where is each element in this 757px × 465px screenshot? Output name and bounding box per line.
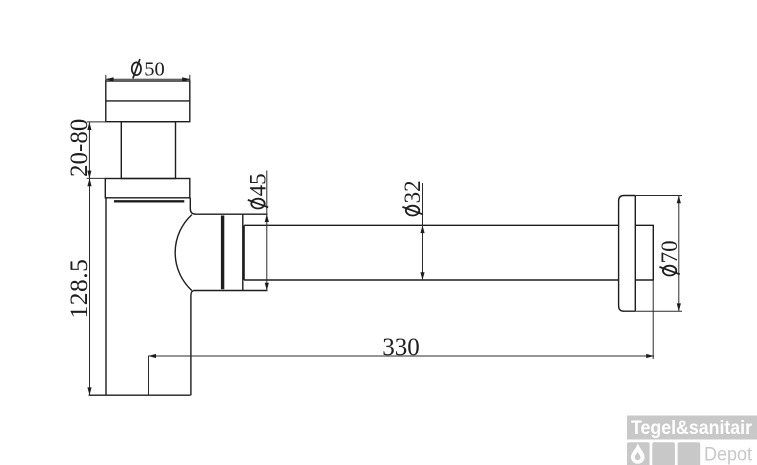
watermark square 2 bbox=[652, 442, 675, 465]
dim 20-80 ext top bbox=[87, 121, 106, 123]
arrow Ø70 top bbox=[677, 196, 681, 204]
arrow 20-80 top bbox=[87, 122, 91, 130]
gasket line bbox=[114, 200, 184, 202]
arrow 128.5 top bbox=[87, 178, 91, 186]
pipe bottom line bbox=[244, 279, 618, 281]
svg-text:20-80: 20-80 bbox=[66, 119, 93, 177]
watermark square 1 bbox=[627, 442, 650, 465]
dim 330 line bbox=[148, 355, 654, 357]
pipe top line bbox=[244, 224, 618, 226]
svg-text:Depot: Depot bbox=[704, 445, 753, 465]
top flange mid line bbox=[106, 100, 190, 102]
arrow 330 left bbox=[148, 354, 156, 358]
watermark band bbox=[627, 416, 757, 440]
arrow Ø45 top bbox=[265, 214, 269, 222]
svg-text:32: 32 bbox=[400, 180, 425, 203]
stem pipe bbox=[121, 122, 175, 179]
label Ø32 bbox=[400, 180, 425, 215]
second flange bbox=[105, 179, 190, 198]
dome arc bbox=[175, 215, 192, 291]
dim Ø50 ext left bbox=[105, 75, 107, 81]
arrow 330 right bbox=[646, 354, 654, 358]
svg-text:Tegel&sanitair: Tegel&sanitair bbox=[631, 418, 753, 439]
arrow Ø50 right bbox=[182, 77, 190, 81]
arrow Ø32 bottom bbox=[420, 272, 424, 280]
dim 20-80 line bbox=[88, 122, 90, 178]
arrow Ø70 bottom bbox=[677, 303, 681, 311]
top flange outline bbox=[106, 81, 190, 122]
body left edge bbox=[105, 198, 107, 395]
wall flange outline bbox=[619, 196, 636, 312]
arrow Ø50 left bbox=[106, 77, 114, 81]
nut section top line bbox=[196, 213, 268, 215]
dim 330 ext left bbox=[148, 356, 150, 395]
watermark drop icon bbox=[631, 444, 645, 464]
watermark square 3 bbox=[678, 442, 701, 465]
svg-text:45: 45 bbox=[245, 173, 270, 196]
dim Ø70 ext top bbox=[635, 195, 682, 197]
label Ø70 bbox=[657, 240, 682, 275]
dim Ø50 ext right bbox=[189, 75, 191, 81]
label Ø50 bbox=[132, 58, 165, 80]
dim Ø45 line bbox=[266, 171, 268, 291]
dim Ø32 line bbox=[422, 183, 424, 280]
dim 128.5 line bbox=[89, 178, 91, 395]
svg-text:330: 330 bbox=[382, 334, 420, 361]
arrow Ø45 bottom bbox=[265, 283, 269, 291]
svg-text:50: 50 bbox=[144, 58, 165, 80]
label Ø45 bbox=[245, 173, 270, 208]
pipe left end bbox=[243, 225, 245, 280]
nut thick face line bbox=[221, 216, 224, 290]
arrow Ø32 top bbox=[420, 225, 424, 233]
dim Ø70 ext bottom bbox=[635, 310, 682, 312]
dim 20-80 ext bottom bbox=[87, 177, 106, 179]
dim Ø50 line bbox=[106, 78, 191, 80]
wall flange right edge bbox=[634, 196, 636, 312]
arrow 128.5 bottom bbox=[87, 387, 91, 395]
svg-text:70: 70 bbox=[657, 240, 682, 263]
nut section bottom line bbox=[194, 290, 268, 292]
body right edge lower with fillet bbox=[191, 291, 194, 396]
dim 330 ext right bbox=[652, 281, 654, 359]
body bottom bbox=[89, 394, 191, 396]
dim Ø70 line bbox=[678, 196, 680, 312]
body right edge upper with fillet bbox=[190, 198, 196, 214]
arrow 20-80 bottom bbox=[87, 171, 91, 179]
watermark drop inner bbox=[635, 452, 641, 460]
nut right edge bbox=[242, 214, 244, 290]
pipe stub in wall bbox=[635, 225, 653, 280]
svg-text:128.5: 128.5 bbox=[64, 259, 93, 319]
